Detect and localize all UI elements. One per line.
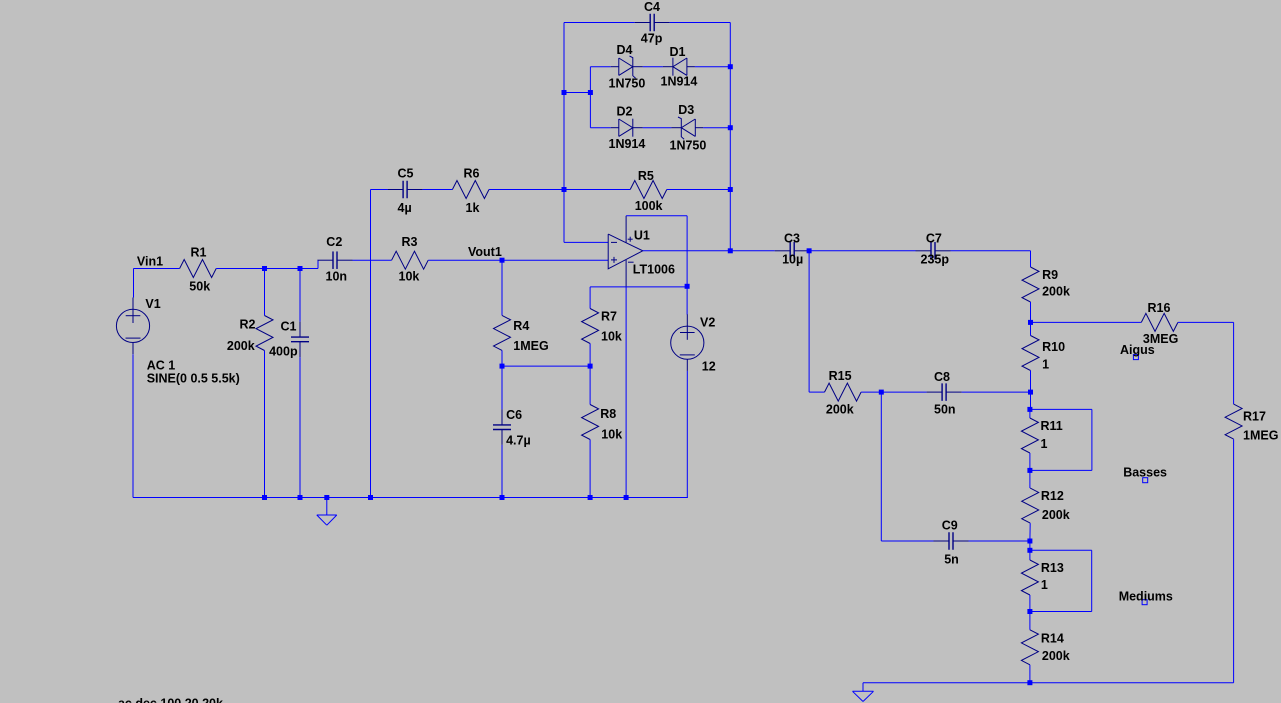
wire R11 bottom lead (1029, 453, 1031, 470)
svg-text:R17: R17 (1243, 410, 1266, 424)
wire C1 bottom lead (299, 357, 301, 497)
wire V1 bottom to ground rail (132, 354, 134, 497)
wire R16 right lead (1178, 321, 1234, 323)
wire R5 right lead (667, 189, 731, 191)
svg-text:R13: R13 (1041, 561, 1064, 575)
junction R13 top node (1027, 548, 1032, 553)
wire R12 top lead (1029, 470, 1031, 488)
wire R12 bottom lead (1029, 523, 1031, 541)
svg-text:1: 1 (1041, 578, 1048, 592)
label V2 (700, 315, 715, 329)
port marker Mediums (1142, 600, 1147, 605)
junction rail R2 (262, 495, 267, 500)
wire R11 bypass top (1030, 408, 1092, 410)
svg-text:4µ: 4µ (398, 201, 412, 215)
resistor R8 (582, 405, 599, 440)
wire R7 bottom lead (589, 344, 591, 367)
value R13 1 (1041, 578, 1048, 592)
label C1 (281, 320, 297, 334)
label R9 (1042, 268, 1058, 282)
value C2 10n (326, 270, 348, 284)
value R6 1k (466, 201, 480, 215)
node label Basses (1123, 466, 1167, 480)
svg-text:LT1006: LT1006 (633, 262, 675, 276)
svg-text:R1: R1 (191, 246, 207, 260)
capacitor C6 (493, 409, 511, 445)
value C4 47p (641, 31, 663, 45)
svg-text:R14: R14 (1041, 632, 1064, 646)
svg-text:.ac dec 100 20 20k: .ac dec 100 20 20k (115, 697, 223, 703)
value C1 400p (269, 344, 298, 358)
value D1 1N914 (661, 75, 698, 89)
svg-text:200k: 200k (1042, 508, 1070, 522)
value R11 1 (1041, 437, 1048, 451)
capacitor C2 (318, 251, 353, 269)
svg-text:AC 1: AC 1 (147, 359, 176, 373)
ground symbol main (317, 498, 337, 526)
svg-text:C7: C7 (926, 232, 942, 246)
label R15 (829, 369, 852, 383)
wire C9 node to R13 top (1029, 541, 1031, 550)
label C3 (784, 232, 800, 246)
value R1 50k (189, 280, 210, 294)
svg-text:200k: 200k (1042, 285, 1070, 299)
wire right ground rail (863, 682, 1234, 684)
wire R11 top lead (1029, 409, 1031, 418)
svg-text:10n: 10n (326, 270, 348, 284)
label R16 (1148, 301, 1171, 315)
svg-text:D4: D4 (617, 43, 633, 57)
resistor R9 (1022, 267, 1039, 302)
label R10 (1042, 340, 1065, 354)
junction rail C5-branch (368, 495, 373, 500)
value C5 4u (398, 201, 412, 215)
svg-text:10k: 10k (601, 428, 622, 442)
junction right rail D1 (728, 64, 733, 69)
label R12 (1041, 489, 1064, 503)
resistor R4 (494, 315, 511, 350)
value D4 1N750 (609, 77, 646, 91)
resistor R2 (256, 316, 273, 351)
junction R7/R8 node (588, 364, 593, 369)
label V1 (145, 297, 160, 311)
resistor R11 (1021, 418, 1038, 453)
wire C2 to R3 (353, 259, 392, 261)
resistor R15 (825, 383, 862, 401)
wire corner to R15 (809, 391, 824, 393)
junction R5 right node (728, 187, 733, 192)
label D1 (670, 45, 686, 59)
wire main ground rail (133, 497, 688, 499)
junction V+ rail R7 tap (685, 284, 690, 289)
wire R11 bypass bottom (1030, 469, 1092, 471)
label C2 (326, 235, 342, 249)
capacitor C5 (388, 181, 423, 199)
svg-text:235p: 235p (921, 253, 950, 267)
wire R9 top lead (1030, 251, 1032, 267)
svg-text:R2: R2 (240, 318, 256, 332)
value C7 235p (921, 253, 950, 267)
wire R2 bottom lead (264, 351, 266, 498)
wire R10 bottom lead (1030, 371, 1032, 393)
svg-text:C4: C4 (644, 0, 660, 14)
resistor R14 (1021, 630, 1038, 665)
svg-text:1MEG: 1MEG (1243, 428, 1278, 442)
svg-text:Aigus: Aigus (1120, 343, 1155, 357)
node label Aigus (1120, 343, 1155, 357)
wire R13 bottom lead (1029, 595, 1031, 612)
wire Vout1 to op-amp plus input (502, 259, 608, 261)
resistor R6 (452, 181, 489, 199)
wire D1 to right rail (695, 66, 730, 68)
wire R11 bypass right (1091, 409, 1093, 470)
svg-text:R5: R5 (638, 169, 654, 183)
wire C5 branch vertical (370, 190, 372, 498)
wire rail corner up to V2 (686, 497, 688, 499)
svg-text:100k: 100k (635, 199, 663, 213)
value R5 100k (635, 199, 663, 213)
svg-text:10k: 10k (601, 329, 622, 343)
wire R13 bypass top (1030, 549, 1092, 551)
junction R9/R16 node (1028, 320, 1033, 325)
wire R9 bottom lead (1030, 302, 1032, 322)
svg-text:1MEG: 1MEG (513, 339, 548, 353)
value R9 200k (1042, 285, 1070, 299)
label C9 (942, 519, 958, 533)
label R8 (600, 407, 616, 421)
diode D2 (611, 119, 643, 137)
wire into C2 (317, 259, 320, 261)
svg-text:1N750: 1N750 (670, 139, 707, 153)
junction C9 row node (1027, 539, 1032, 544)
value R12 200k (1042, 508, 1070, 522)
wire R10node to R11 top (1030, 392, 1032, 409)
wire R13 bypass bottom (1030, 611, 1092, 613)
svg-text:C9: C9 (942, 519, 958, 533)
label D2 (617, 105, 633, 119)
wire V2 top vertical (686, 216, 688, 315)
port marker Aigus (1133, 355, 1138, 360)
svg-text:12: 12 (702, 360, 716, 374)
label R1 (191, 246, 207, 260)
value V2 12 (702, 360, 716, 374)
wire R6 to node (489, 189, 564, 191)
value R3 10k (399, 270, 420, 284)
value R16 3MEG (1143, 332, 1178, 346)
svg-text:10k: 10k (399, 270, 420, 284)
wire C1 top lead (299, 269, 301, 322)
voltage source V1 (116, 298, 149, 355)
junction rail R14 (1027, 680, 1032, 685)
svg-text:SINE(0 0.5 5.5k): SINE(0 0.5 5.5k) (147, 372, 240, 386)
label C8 (934, 370, 950, 384)
wire right feedback rail vertical (729, 23, 731, 251)
junction left rail diode tap (562, 90, 567, 95)
svg-text:C5: C5 (398, 167, 414, 181)
junction R13 bottom node (1027, 609, 1032, 614)
wire R16 left lead (1031, 321, 1142, 323)
resistor R7 (582, 309, 599, 344)
svg-text:R12: R12 (1041, 489, 1064, 503)
wire R4 top lead (501, 260, 503, 315)
value U1 LT1006 (633, 262, 675, 276)
value R8 10k (601, 428, 622, 442)
label R7 (601, 310, 617, 324)
wire C3 node to C7 (809, 250, 915, 252)
label R13 (1041, 561, 1064, 575)
op-amp U1 triangle (608, 234, 643, 269)
junction rail C6 (500, 495, 505, 500)
wire R3 to Vout1 (428, 259, 502, 261)
svg-text:1: 1 (1041, 437, 1048, 451)
label R4 (513, 319, 529, 333)
svg-text:1k: 1k (466, 201, 480, 215)
svg-text:R6: R6 (464, 167, 480, 181)
junction rail C1 (298, 495, 303, 500)
node junction C1 top (298, 266, 303, 271)
wire D3 to right rail (703, 127, 730, 129)
op-amp U1 V- pin (626, 260, 634, 288)
svg-text:50n: 50n (934, 403, 956, 417)
junction R6/R5 left node (562, 187, 567, 192)
value R4 1MEG (513, 339, 548, 353)
resistor R12 (1022, 488, 1039, 523)
wire R1 to node (216, 268, 300, 270)
wire C7 to R9 corner (951, 250, 1031, 252)
label Vout1 (468, 245, 502, 259)
wire diode branch vertical (589, 67, 591, 128)
junction R11 top node (1027, 407, 1032, 412)
svg-text:D1: D1 (670, 45, 686, 59)
svg-text:200k: 200k (227, 339, 255, 353)
wire R13 bypass right (1091, 550, 1093, 611)
label U1 (634, 229, 650, 243)
value C6 4.7u (506, 433, 531, 447)
wire R13 top lead (1029, 550, 1031, 560)
value D2 1N914 (609, 137, 646, 151)
junction output node (728, 248, 733, 253)
node label Mediums (1119, 589, 1173, 603)
svg-text:Mediums: Mediums (1119, 589, 1173, 603)
node junction R2 top (262, 266, 267, 271)
svg-text:R9: R9 (1042, 268, 1058, 282)
value D3 1N750 (670, 139, 707, 153)
resistor R5 (630, 181, 667, 199)
svg-text:5n: 5n (944, 553, 959, 567)
resistor R10 (1022, 336, 1039, 371)
svg-text:C8: C8 (934, 370, 950, 384)
wire R14 bottom lead (1029, 665, 1031, 683)
wire left feedback rail vertical (563, 23, 565, 243)
wire C6 bottom lead (501, 445, 503, 498)
wire rail to op-amp minus input (564, 241, 608, 243)
svg-text:400p: 400p (269, 344, 298, 358)
junction R10 bottom node (1028, 390, 1033, 395)
capacitor C3 (775, 242, 810, 259)
label C6 (506, 408, 522, 422)
svg-text:Vin1: Vin1 (137, 255, 163, 269)
label D3 (678, 103, 694, 117)
node Vout1 junction (500, 258, 505, 263)
junction R4/C6 node (500, 364, 505, 369)
spice directive .ac (115, 697, 223, 703)
resistor R3 (392, 251, 429, 269)
port marker Basses (1143, 478, 1148, 483)
svg-text:1N750: 1N750 (609, 77, 646, 91)
wire D2 to D3 (643, 127, 672, 129)
junction right rail D3 (728, 125, 733, 130)
wire C3 to node (808, 250, 811, 252)
svg-text:Vout1: Vout1 (468, 245, 502, 259)
junction rail ground (324, 495, 329, 500)
junction R11 bottom node (1027, 468, 1032, 473)
svg-text:1N914: 1N914 (609, 137, 646, 151)
label R14 (1041, 632, 1064, 646)
svg-text:R4: R4 (513, 319, 529, 333)
svg-text:R7: R7 (601, 310, 617, 324)
diode D4 zener (611, 56, 643, 78)
diode D1 (663, 58, 695, 76)
resistor R1 (180, 260, 217, 278)
wire C3 node down (808, 251, 810, 392)
svg-text:C6: C6 (506, 408, 522, 422)
wire R14 top lead (1029, 612, 1031, 630)
wire R4 node to R7 node (502, 365, 590, 367)
wire C9 to node (969, 540, 1030, 542)
value C3 10u (782, 253, 803, 267)
svg-text:R3: R3 (402, 235, 418, 249)
wire to D4 (590, 66, 610, 68)
wire R2 top lead (264, 269, 266, 316)
wire R7 top lead (589, 287, 591, 309)
svg-text:10µ: 10µ (782, 253, 803, 267)
svg-text:D3: D3 (678, 103, 694, 117)
resistor R13 (1021, 560, 1038, 595)
wire V2 bottom lead (686, 371, 688, 498)
wire R17 top lead (1233, 322, 1235, 404)
svg-text:C1: C1 (281, 320, 297, 334)
svg-text:V2: V2 (700, 315, 715, 329)
wire corner to C5 (371, 189, 388, 191)
svg-text:200k: 200k (1042, 649, 1070, 663)
svg-text:R11: R11 (1041, 419, 1063, 433)
ground symbol right (853, 683, 874, 702)
wire C4 left (564, 22, 635, 24)
wire diode tap horizontal (564, 92, 590, 94)
wire Vin1 to R1 (134, 268, 180, 270)
value C9 5n (944, 553, 959, 567)
svg-text:1: 1 (1042, 357, 1049, 371)
value R2 200k (227, 339, 255, 353)
svg-text:R16: R16 (1148, 301, 1171, 315)
wire R4 bottom lead (501, 350, 503, 366)
wire C6 top lead (501, 366, 503, 409)
wire R7 top horizontal (590, 286, 687, 288)
svg-text:D2: D2 (617, 105, 633, 119)
junction diode branch (588, 90, 593, 95)
wire R5 left lead (564, 189, 630, 191)
wire to D2 (590, 127, 610, 129)
label C4 (644, 0, 660, 14)
label D4 (617, 43, 633, 57)
capacitor C4 (635, 14, 670, 32)
svg-text:4.7µ: 4.7µ (506, 433, 531, 447)
capacitor C9 (934, 532, 969, 550)
label R11 (1041, 419, 1063, 433)
value R7 10k (601, 329, 622, 343)
svg-text:47p: 47p (641, 31, 663, 45)
label R6 (464, 167, 480, 181)
wire C8 node down (880, 392, 882, 541)
svg-text:R15: R15 (829, 369, 852, 383)
svg-text:U1: U1 (634, 229, 650, 243)
wire C8 to R10 node (962, 391, 1031, 393)
label R5 (638, 169, 654, 183)
wire R10 top lead (1030, 322, 1032, 335)
wire node to C8 (881, 391, 926, 393)
label Vin1 (137, 255, 163, 269)
capacitor C7 (916, 242, 951, 259)
value R17 1MEG (1243, 428, 1278, 442)
junction rail R8 (588, 495, 593, 500)
svg-text:R8: R8 (600, 407, 616, 421)
wire R17 bottom lead (1233, 439, 1235, 683)
wire step up to C2 row (317, 260, 319, 268)
svg-text:1N914: 1N914 (661, 75, 698, 89)
label C5 (398, 167, 414, 181)
wire V+ pin to top rail (626, 215, 687, 217)
resistor R17 (1225, 404, 1242, 439)
value R15 200k (826, 403, 854, 417)
wire R15 to C8 node (861, 391, 881, 393)
wire V1 top lead (133, 269, 135, 298)
label R2 (240, 318, 256, 332)
svg-text:200k: 200k (826, 403, 854, 417)
capacitor C8 (927, 383, 962, 401)
wire C4 right (670, 22, 731, 24)
svg-text:R10: R10 (1042, 340, 1065, 354)
label R17 (1243, 410, 1266, 424)
wire R8 top lead (589, 366, 591, 404)
value R14 200k (1042, 649, 1070, 663)
wire corner to C9 (881, 540, 933, 542)
wire step right of C1 (300, 268, 318, 270)
capacitor C1 (291, 322, 309, 358)
wire D4 to D1 (643, 66, 663, 68)
label C7 (926, 232, 942, 246)
wire C5 to R6 (423, 189, 453, 191)
svg-text:50k: 50k (189, 280, 210, 294)
value C8 50n (934, 403, 956, 417)
svg-text:Basses: Basses (1123, 466, 1167, 480)
value V1 SINE (147, 372, 240, 386)
wire op-amp output (643, 250, 775, 252)
diode D3 zener (671, 117, 703, 139)
svg-text:C2: C2 (326, 235, 342, 249)
junction R15/C8/C9 node (879, 390, 884, 395)
value R10 1 (1042, 357, 1049, 371)
junction rail op-amp V- (624, 495, 629, 500)
op-amp U1 V+ pin (626, 216, 633, 243)
label R3 (402, 235, 418, 249)
voltage source V2 (671, 314, 704, 371)
resistor R16 (1141, 313, 1178, 331)
svg-text:V1: V1 (145, 297, 160, 311)
junction C3 right node (807, 248, 812, 253)
svg-text:C3: C3 (784, 232, 800, 246)
wire V- pin to ground rail (625, 288, 627, 498)
value V1 AC 1 (147, 359, 176, 373)
